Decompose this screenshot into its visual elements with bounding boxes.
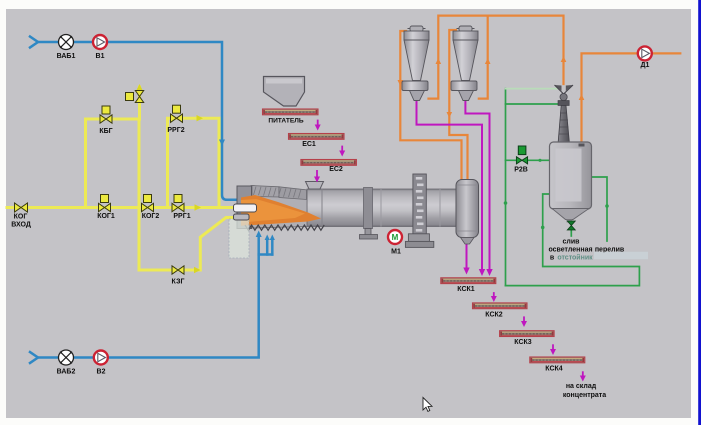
svg-text:Р2В: Р2В (514, 167, 528, 174)
svg-text:слив: слив (563, 239, 581, 246)
svg-text:М1: М1 (391, 249, 401, 256)
svg-text:концентрата: концентрата (563, 392, 606, 399)
svg-text:ВАБ2: ВАБ2 (57, 369, 76, 376)
svg-text:ЕС1: ЕС1 (302, 141, 316, 148)
svg-text:ВХОД: ВХОД (11, 222, 31, 229)
svg-text:осветленная: осветленная (548, 247, 592, 254)
svg-text:КОГ: КОГ (14, 214, 28, 221)
svg-text:ЕС2: ЕС2 (329, 166, 343, 173)
svg-text:КЗГ: КЗГ (172, 279, 185, 286)
svg-text:КБГ: КБГ (99, 128, 112, 135)
svg-text:РРГ1: РРГ1 (173, 213, 190, 220)
svg-text:КСК2: КСК2 (485, 312, 503, 319)
svg-text:М: М (392, 233, 399, 242)
svg-text:отстойник: отстойник (557, 254, 593, 262)
svg-text:КСК1: КСК1 (457, 286, 475, 293)
svg-text:КСК4: КСК4 (545, 366, 563, 373)
svg-text:В2: В2 (97, 369, 106, 376)
svg-text:Д1: Д1 (641, 62, 650, 69)
svg-text:КОГ2: КОГ2 (142, 213, 160, 220)
svg-text:в: в (550, 255, 555, 262)
svg-text:ПИТАТЕЛЬ: ПИТАТЕЛЬ (268, 118, 304, 125)
svg-text:КСК3: КСК3 (514, 339, 532, 346)
svg-text:В1: В1 (96, 53, 105, 60)
svg-text:КОГ1: КОГ1 (97, 213, 115, 220)
svg-text:на склад: на склад (566, 383, 597, 390)
svg-text:РРГ2: РРГ2 (167, 127, 184, 134)
svg-text:ВАБ1: ВАБ1 (57, 53, 76, 60)
